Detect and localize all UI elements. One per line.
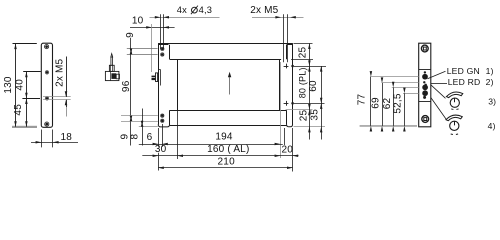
svg-text:LED RD: LED RD	[448, 77, 481, 87]
svg-text:20: 20	[282, 144, 294, 155]
svg-text:40: 40	[14, 79, 25, 91]
svg-text:1): 1)	[486, 66, 494, 76]
svg-text:45: 45	[13, 104, 24, 116]
svg-text:9: 9	[125, 32, 136, 38]
svg-text:25: 25	[297, 47, 308, 59]
svg-text:10: 10	[132, 16, 144, 27]
svg-text:6: 6	[147, 132, 153, 143]
svg-text:130: 130	[3, 76, 14, 94]
svg-text:2): 2)	[486, 77, 494, 87]
svg-text:96: 96	[121, 80, 132, 92]
svg-text:69: 69	[371, 97, 382, 109]
svg-text:30: 30	[155, 144, 167, 155]
svg-text:LED GN: LED GN	[447, 66, 480, 76]
svg-text:18: 18	[61, 132, 73, 143]
svg-text:52,5: 52,5	[393, 93, 404, 114]
svg-text:80 (PL): 80 (PL)	[297, 67, 307, 98]
svg-text:62: 62	[382, 98, 393, 110]
svg-text:2x M5: 2x M5	[54, 58, 65, 86]
svg-text:8: 8	[130, 133, 141, 139]
svg-text:60: 60	[308, 80, 319, 92]
svg-text:2x M5: 2x M5	[250, 5, 278, 16]
svg-text:4,3: 4,3	[199, 5, 213, 15]
svg-text:3): 3)	[488, 96, 496, 106]
svg-text:25: 25	[299, 110, 310, 122]
svg-text:210: 210	[218, 156, 236, 167]
svg-text:4): 4)	[488, 121, 496, 131]
svg-text:160 ( AL): 160 ( AL)	[207, 144, 249, 155]
svg-text:4x: 4x	[177, 5, 187, 15]
svg-text:77: 77	[357, 94, 368, 106]
svg-text:35: 35	[309, 109, 320, 121]
svg-text:194: 194	[215, 132, 233, 143]
